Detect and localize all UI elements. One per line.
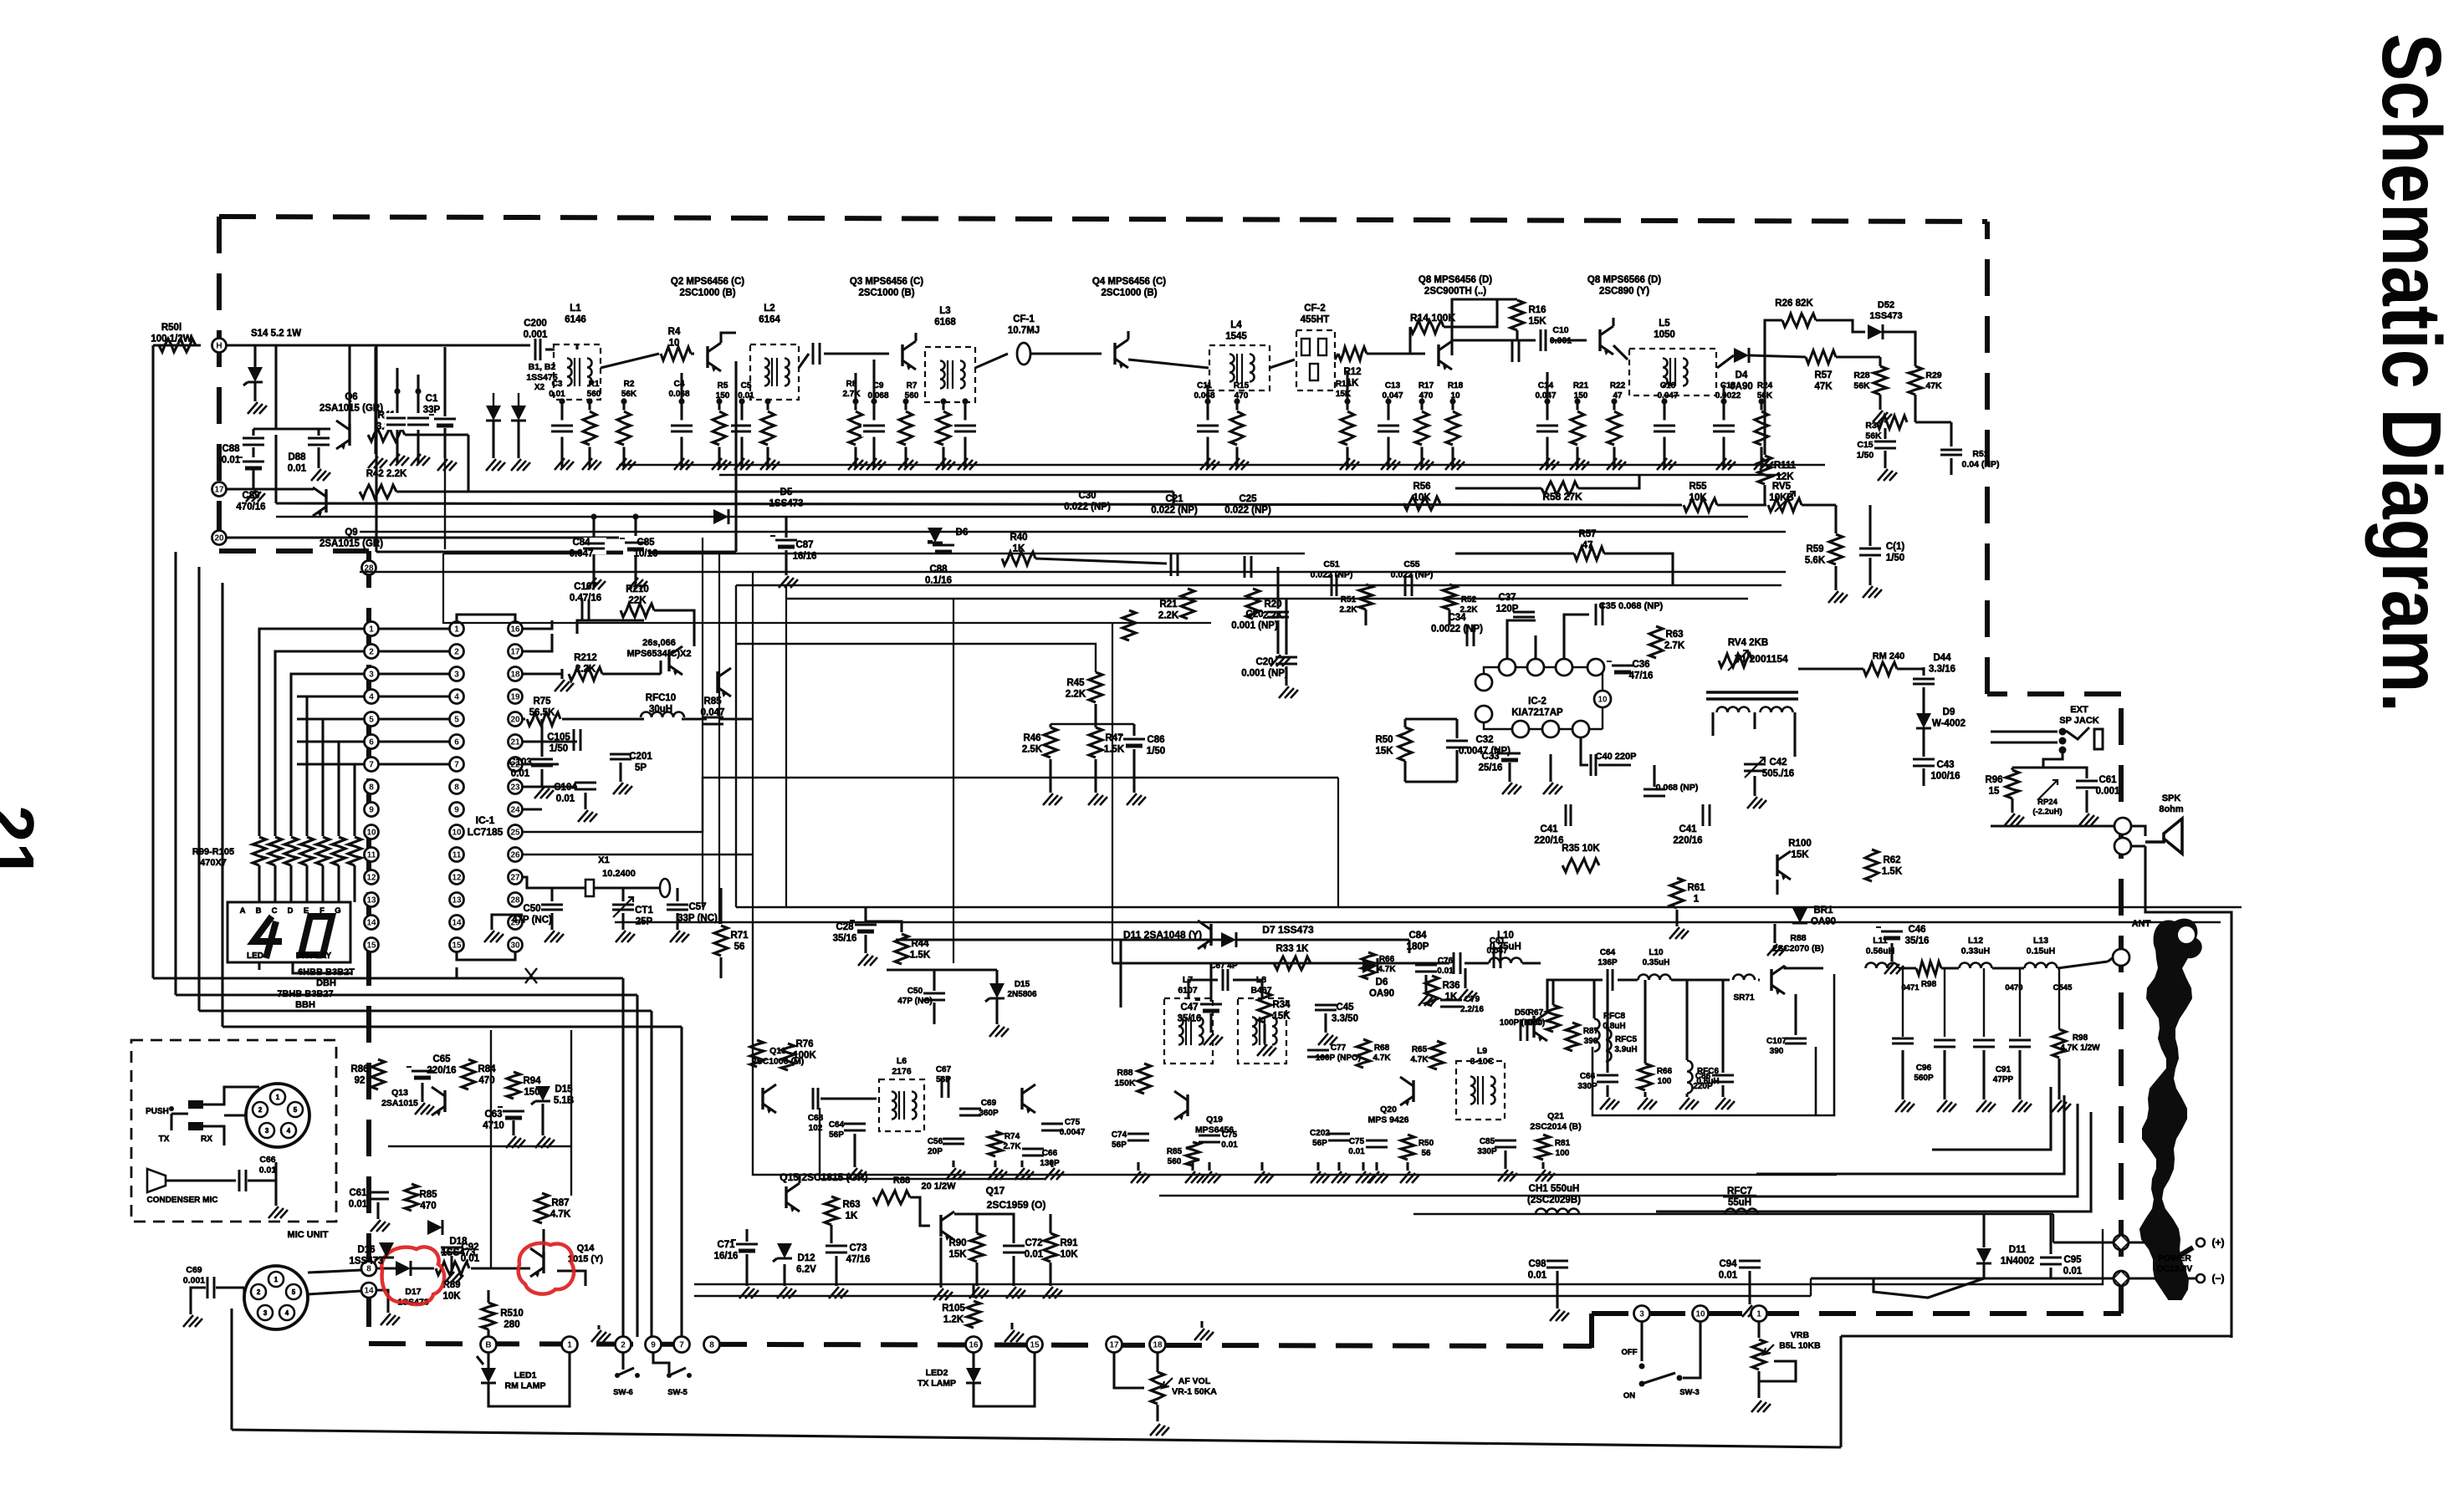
svg-text:1050: 1050 <box>1654 330 1675 340</box>
svg-text:SPK: SPK <box>2162 793 2181 804</box>
svg-text:C94: C94 <box>1719 1259 1737 1269</box>
svg-text:RV5: RV5 <box>1772 482 1792 492</box>
svg-text:R5: R5 <box>718 381 728 390</box>
svg-text:(-2.2uH): (-2.2uH) <box>2032 808 2062 817</box>
svg-text:0.022 (NP): 0.022 (NP) <box>1391 570 1434 580</box>
svg-text:D12: D12 <box>797 1253 815 1263</box>
svg-text:C91: C91 <box>1996 1065 2012 1074</box>
svg-text:0.01: 0.01 <box>1719 1271 1738 1281</box>
svg-text:11: 11 <box>367 851 376 860</box>
svg-text:47P (NC): 47P (NC) <box>512 916 552 926</box>
svg-text:16/16: 16/16 <box>714 1252 739 1262</box>
svg-text:21: 21 <box>0 805 48 880</box>
svg-text:D: D <box>288 906 294 916</box>
svg-text:2SC1959 (O): 2SC1959 (O) <box>987 1199 1046 1211</box>
svg-text:0.01: 0.01 <box>1437 967 1454 976</box>
svg-text:C87: C87 <box>795 540 813 550</box>
svg-text:R51: R51 <box>1341 595 1357 605</box>
svg-text:0.01: 0.01 <box>461 1254 480 1264</box>
svg-text:6168: 6168 <box>934 318 956 328</box>
svg-text:D15: D15 <box>1015 980 1030 989</box>
svg-text:24: 24 <box>510 806 520 815</box>
svg-text:Q17: Q17 <box>986 1185 1005 1196</box>
svg-text:10: 10 <box>1450 391 1460 400</box>
svg-text:1: 1 <box>1694 895 1700 905</box>
svg-text:56P: 56P <box>936 1075 951 1084</box>
svg-text:10K: 10K <box>1689 493 1707 503</box>
svg-text:2: 2 <box>258 1106 263 1114</box>
svg-text:470/16: 470/16 <box>236 503 265 513</box>
svg-text:C64: C64 <box>1600 948 1616 957</box>
svg-text:ANT: ANT <box>2132 919 2151 929</box>
svg-text:8ohm: 8ohm <box>2159 804 2184 814</box>
svg-text:0.047: 0.047 <box>1382 391 1403 400</box>
svg-text:C86: C86 <box>1147 735 1164 745</box>
svg-text:1K: 1K <box>846 1212 858 1222</box>
svg-text:47K: 47K <box>1925 381 1942 391</box>
svg-text:PUSH: PUSH <box>146 1107 169 1116</box>
svg-text:R40: R40 <box>1010 533 1027 543</box>
svg-text:1.5K: 1.5K <box>1104 745 1125 755</box>
svg-text:Q19: Q19 <box>1206 1115 1223 1125</box>
svg-text:R50: R50 <box>1375 735 1393 745</box>
svg-text:0.001 (NP): 0.001 (NP) <box>1231 621 1278 631</box>
svg-text:R57: R57 <box>1814 370 1832 380</box>
svg-text:C65: C65 <box>432 1054 451 1064</box>
svg-text:TX: TX <box>159 1135 170 1144</box>
svg-text:0.068 (NP): 0.068 (NP) <box>1656 783 1699 793</box>
svg-text:0.15uH: 0.15uH <box>2027 946 2055 957</box>
svg-text:Q20: Q20 <box>1380 1105 1397 1115</box>
svg-text:C20: C20 <box>1255 657 1273 667</box>
svg-text:130P: 130P <box>1040 1159 1060 1168</box>
svg-text:R75: R75 <box>533 696 551 707</box>
svg-text:25: 25 <box>510 829 520 838</box>
svg-text:EXT: EXT <box>2070 705 2088 715</box>
svg-text:100K: 100K <box>793 1051 816 1061</box>
svg-text:0.8uH: 0.8uH <box>1603 1022 1625 1031</box>
svg-text:R87: R87 <box>551 1198 569 1208</box>
svg-text:5: 5 <box>294 1106 298 1114</box>
svg-text:10: 10 <box>366 829 376 838</box>
svg-text:C77: C77 <box>1331 1043 1347 1053</box>
svg-text:R96: R96 <box>1985 775 2002 785</box>
svg-text:56.5K: 56.5K <box>529 708 555 718</box>
svg-text:0.04 (NP): 0.04 (NP) <box>1962 460 2000 470</box>
svg-text:2: 2 <box>454 648 459 657</box>
svg-text:2SC2014 (B): 2SC2014 (B) <box>1530 1122 1581 1132</box>
svg-text:56P: 56P <box>1112 1140 1127 1150</box>
svg-text:SP JACK: SP JACK <box>2059 716 2099 726</box>
svg-text:3: 3 <box>454 671 459 680</box>
svg-text:C34: C34 <box>1448 613 1466 623</box>
svg-text:56K: 56K <box>1853 381 1870 391</box>
svg-text:R212: R212 <box>574 653 597 663</box>
svg-text:1.5K: 1.5K <box>910 951 931 961</box>
svg-text:C3: C3 <box>552 380 563 389</box>
svg-text:0.047: 0.047 <box>570 549 594 559</box>
svg-text:4.7K: 4.7K <box>1373 1053 1391 1063</box>
svg-text:R15: R15 <box>1234 381 1250 390</box>
svg-text:C73: C73 <box>849 1243 866 1253</box>
svg-text:0.01: 0.01 <box>511 769 530 779</box>
svg-text:2176: 2176 <box>892 1067 912 1077</box>
svg-text:0.047: 0.047 <box>1535 391 1556 400</box>
svg-text:R88: R88 <box>1117 1068 1132 1078</box>
svg-text:C69: C69 <box>186 1265 202 1275</box>
svg-text:CF-1: CF-1 <box>1013 314 1035 324</box>
svg-text:28: 28 <box>510 896 520 906</box>
svg-text:120P: 120P <box>1496 605 1519 615</box>
svg-text:3: 3 <box>263 1309 268 1317</box>
svg-text:R74: R74 <box>1005 1132 1020 1141</box>
svg-text:2SA1015: 2SA1015 <box>381 1099 418 1109</box>
svg-text:D11: D11 <box>2009 1245 2027 1255</box>
svg-text:10: 10 <box>452 829 462 838</box>
svg-text:RV4 2KB: RV4 2KB <box>1728 638 1768 648</box>
svg-text:D52: D52 <box>1878 300 1894 310</box>
svg-text:0.56uH: 0.56uH <box>1866 946 1894 957</box>
svg-text:15: 15 <box>1030 1341 1040 1350</box>
svg-text:1: 1 <box>274 1276 279 1283</box>
svg-text:6146: 6146 <box>565 315 586 325</box>
svg-text:C57: C57 <box>688 902 706 912</box>
svg-text:C33: C33 <box>1481 752 1499 762</box>
svg-text:C13: C13 <box>1385 381 1401 390</box>
svg-text:R210: R210 <box>626 584 649 594</box>
svg-text:C84: C84 <box>1408 931 1427 941</box>
svg-text:7: 7 <box>454 761 459 770</box>
svg-text:Q21: Q21 <box>1547 1111 1564 1121</box>
svg-text:12K: 12K <box>1776 472 1794 482</box>
svg-text:C25: C25 <box>1239 494 1257 504</box>
svg-text:27: 27 <box>510 874 520 883</box>
svg-text:455HT: 455HT <box>1301 315 1330 325</box>
svg-text:23: 23 <box>510 783 520 793</box>
svg-text:56P: 56P <box>829 1130 844 1140</box>
svg-text:C103: C103 <box>509 758 532 768</box>
svg-text:0.047: 0.047 <box>1657 391 1678 400</box>
svg-text:21: 21 <box>510 738 520 747</box>
svg-text:13: 13 <box>452 896 462 906</box>
svg-text:Q8 MPS6566 (D): Q8 MPS6566 (D) <box>1587 275 1661 285</box>
svg-text:470: 470 <box>478 1076 494 1086</box>
svg-text:47P (NC): 47P (NC) <box>897 997 933 1006</box>
svg-text:136P: 136P <box>1598 958 1618 967</box>
svg-text:R90: R90 <box>948 1238 966 1248</box>
svg-text:C75: C75 <box>1349 1137 1365 1146</box>
svg-text:0.35uH: 0.35uH <box>1643 958 1670 967</box>
svg-text:R68: R68 <box>1374 1043 1390 1053</box>
svg-text:Q4 MPS6456 (C): Q4 MPS6456 (C) <box>1092 277 1166 287</box>
svg-text:3: 3 <box>369 671 374 680</box>
svg-text:15K: 15K <box>948 1250 967 1260</box>
svg-text:C88: C88 <box>222 444 240 454</box>
svg-text:C71: C71 <box>717 1240 735 1250</box>
svg-text:C43: C43 <box>1936 760 1954 770</box>
svg-text:R62: R62 <box>1883 855 1900 865</box>
svg-text:0.01: 0.01 <box>1221 1140 1238 1150</box>
svg-text:C202: C202 <box>1310 1129 1330 1138</box>
svg-text:L1: L1 <box>570 304 581 314</box>
svg-text:2SC890 (Y): 2SC890 (Y) <box>1599 287 1649 297</box>
svg-text:D7 1SS473: D7 1SS473 <box>1262 924 1314 936</box>
svg-text:C5: C5 <box>741 381 752 390</box>
svg-text:R98: R98 <box>1921 980 1937 989</box>
svg-text:0.001: 0.001 <box>2096 787 2120 797</box>
svg-text:0.001: 0.001 <box>524 330 548 340</box>
svg-text:26s,066: 26s,066 <box>642 638 676 648</box>
svg-text:C89: C89 <box>242 491 259 501</box>
svg-text:R71: R71 <box>730 931 749 941</box>
svg-text:10: 10 <box>1598 696 1608 705</box>
svg-text:C50: C50 <box>907 987 923 996</box>
svg-text:R2: R2 <box>624 380 635 389</box>
svg-text:MIC UNIT: MIC UNIT <box>288 1230 329 1240</box>
svg-text:C: C <box>272 906 278 916</box>
svg-text:20: 20 <box>510 716 520 725</box>
svg-text:C69: C69 <box>981 1099 997 1108</box>
svg-text:1/50: 1/50 <box>550 744 568 754</box>
svg-text:2.7K: 2.7K <box>1003 1142 1021 1151</box>
svg-text:R52: R52 <box>1461 595 1477 605</box>
svg-text:4.7K 1/2W: 4.7K 1/2W <box>2060 1043 2100 1053</box>
svg-text:20P: 20P <box>928 1147 943 1156</box>
svg-text:C545: C545 <box>2053 983 2073 992</box>
svg-text:W-4002: W-4002 <box>1932 719 1966 729</box>
svg-text:C50: C50 <box>523 904 540 914</box>
svg-text:102: 102 <box>809 1124 823 1133</box>
svg-text:55uH: 55uH <box>1728 1198 1751 1208</box>
svg-text:2SC900TH (..): 2SC900TH (..) <box>1424 287 1486 297</box>
svg-text:(−): (−) <box>2212 1273 2225 1284</box>
svg-text:R61: R61 <box>1687 883 1705 893</box>
svg-text:LED: LED <box>247 951 263 961</box>
svg-text:CF-2: CF-2 <box>1304 304 1326 314</box>
svg-text:C41: C41 <box>1540 824 1558 834</box>
svg-text:100/16: 100/16 <box>1930 772 1960 782</box>
svg-text:8: 8 <box>454 783 459 793</box>
svg-text:C47: C47 <box>1180 1002 1198 1013</box>
svg-text:D5: D5 <box>780 487 793 497</box>
svg-text:DISPLAY: DISPLAY <box>296 951 332 961</box>
svg-text:16: 16 <box>969 1341 979 1350</box>
svg-text:7BHB B3B27: 7BHB B3B27 <box>277 989 333 999</box>
svg-text:2: 2 <box>621 1341 626 1350</box>
svg-text:MPS6534(C)X2: MPS6534(C)X2 <box>626 649 691 659</box>
svg-text:0.0022 (NP): 0.0022 (NP) <box>1431 625 1483 635</box>
svg-text:C10: C10 <box>1552 325 1568 335</box>
svg-text:0.01: 0.01 <box>259 1166 277 1176</box>
svg-text:2.2K: 2.2K <box>1339 605 1357 615</box>
svg-text:C85: C85 <box>636 538 655 548</box>
svg-text:0.1/16: 0.1/16 <box>925 576 952 586</box>
svg-text:R22: R22 <box>1610 381 1626 390</box>
svg-text:C32: C32 <box>1475 735 1493 745</box>
svg-text:7: 7 <box>679 1341 684 1350</box>
svg-text:0.01: 0.01 <box>1528 1271 1547 1281</box>
svg-text:1: 1 <box>454 625 459 635</box>
svg-text:15: 15 <box>452 941 462 951</box>
svg-text:C67: C67 <box>936 1065 952 1074</box>
svg-text:C107: C107 <box>1766 1037 1787 1046</box>
svg-text:4: 4 <box>369 693 374 702</box>
svg-text:150K: 150K <box>1114 1079 1136 1089</box>
svg-text:C68: C68 <box>808 1114 824 1123</box>
svg-text:20 1/2W: 20 1/2W <box>922 1181 957 1191</box>
svg-text:C107: C107 <box>574 582 597 592</box>
svg-text:0.068: 0.068 <box>1194 391 1214 400</box>
svg-text:R4: R4 <box>668 327 681 337</box>
svg-text:560: 560 <box>1168 1157 1182 1166</box>
svg-text:VR-1 50KA: VR-1 50KA <box>1172 1387 1217 1397</box>
svg-text:4710: 4710 <box>483 1121 504 1131</box>
svg-text:R28: R28 <box>1853 370 1869 380</box>
svg-text:R17: R17 <box>1419 381 1434 390</box>
svg-text:0.35uH: 0.35uH <box>1490 942 1521 952</box>
svg-text:R45: R45 <box>1066 678 1085 688</box>
svg-text:C88: C88 <box>929 564 948 574</box>
svg-text:C85: C85 <box>1480 1137 1495 1146</box>
svg-text:C61: C61 <box>2098 775 2117 785</box>
svg-text:C(1): C(1) <box>1886 542 1905 552</box>
svg-text:0.068: 0.068 <box>867 391 888 400</box>
svg-text:330P: 330P <box>1577 1082 1598 1091</box>
svg-text:1: 1 <box>276 1094 280 1101</box>
svg-text:2N5806: 2N5806 <box>1007 990 1036 999</box>
svg-text:0.01: 0.01 <box>288 464 307 474</box>
svg-text:0.01: 0.01 <box>556 794 575 804</box>
svg-text:16: 16 <box>510 625 520 635</box>
svg-text:R99-R105: R99-R105 <box>192 847 234 857</box>
svg-text:9: 9 <box>454 806 459 815</box>
svg-text:47K: 47K <box>1814 382 1833 392</box>
svg-text:Q3 MPS6456 (C): Q3 MPS6456 (C) <box>850 277 923 287</box>
svg-text:19: 19 <box>510 693 520 702</box>
svg-text:47/16: 47/16 <box>846 1255 871 1265</box>
svg-text:R7: R7 <box>907 381 918 390</box>
svg-text:9: 9 <box>651 1341 656 1350</box>
svg-text:L2: L2 <box>764 304 774 314</box>
svg-text:D9: D9 <box>1943 707 1955 717</box>
svg-text:0.01: 0.01 <box>1025 1250 1044 1260</box>
svg-text:LC7185: LC7185 <box>468 826 504 838</box>
svg-text:9: 9 <box>369 806 374 815</box>
svg-text:3.9uH: 3.9uH <box>1614 1045 1637 1054</box>
svg-text:10K: 10K <box>442 1292 461 1302</box>
svg-text:25/16: 25/16 <box>1479 763 1503 773</box>
svg-text:0471: 0471 <box>1901 983 1920 992</box>
svg-text:15K: 15K <box>1528 317 1546 327</box>
svg-text:8: 8 <box>369 783 374 793</box>
svg-text:220/16: 220/16 <box>1534 836 1563 846</box>
svg-text:ON: ON <box>1623 1391 1635 1400</box>
svg-text:4: 4 <box>287 1127 291 1135</box>
svg-text:2SA1015 (GR): 2SA1015 (GR) <box>320 404 383 414</box>
svg-text:R21: R21 <box>1573 381 1589 390</box>
svg-text:5: 5 <box>369 716 374 725</box>
svg-text:R111: R111 <box>1774 461 1797 471</box>
svg-text:Q13: Q13 <box>391 1088 408 1098</box>
svg-text:C92: C92 <box>461 1242 478 1252</box>
svg-text:22K: 22K <box>628 596 647 606</box>
svg-text:2.2/16: 2.2/16 <box>1460 1005 1484 1014</box>
svg-text:KIA7217AP: KIA7217AP <box>1511 708 1563 718</box>
svg-text:1SS473: 1SS473 <box>769 499 804 509</box>
svg-text:L6: L6 <box>897 1056 907 1066</box>
svg-text:2.2K: 2.2K <box>1158 611 1179 621</box>
svg-text:0.022 (NP): 0.022 (NP) <box>1224 506 1271 516</box>
svg-text:2SA1015 (GR): 2SA1015 (GR) <box>320 539 383 549</box>
svg-text:IC-2: IC-2 <box>1528 696 1546 707</box>
svg-text:330P: 330P <box>1477 1147 1497 1156</box>
svg-text:12: 12 <box>366 874 376 883</box>
svg-text:0.022 (NP): 0.022 (NP) <box>1151 506 1198 516</box>
svg-text:X1: X1 <box>598 855 609 865</box>
svg-text:RFC7: RFC7 <box>1727 1186 1752 1196</box>
svg-text:RX: RX <box>201 1135 212 1144</box>
svg-text:56K: 56K <box>621 390 637 399</box>
svg-text:R50l: R50l <box>161 323 181 333</box>
svg-text:Q2 MPS6456 (C): Q2 MPS6456 (C) <box>671 277 744 287</box>
svg-text:A: A <box>240 906 246 916</box>
svg-text:11: 11 <box>452 851 462 860</box>
svg-text:100P (NPO): 100P (NPO) <box>1316 1053 1361 1063</box>
svg-text:RFC10: RFC10 <box>646 693 676 703</box>
svg-text:1SS473: 1SS473 <box>1869 311 1902 321</box>
svg-text:R59: R59 <box>1806 544 1823 554</box>
svg-text:D44: D44 <box>1933 653 1951 663</box>
svg-text:1545: 1545 <box>1225 332 1247 342</box>
svg-text:L9: L9 <box>1477 1046 1487 1056</box>
svg-text:SW-5: SW-5 <box>667 1388 688 1397</box>
svg-text:X2: X2 <box>534 383 545 392</box>
svg-text:OA90: OA90 <box>1369 989 1394 999</box>
svg-text:13: 13 <box>366 896 376 906</box>
svg-text:2.7K: 2.7K <box>842 390 861 399</box>
svg-text:0.022 (NP): 0.022 (NP) <box>1064 503 1111 513</box>
svg-text:2SC1000 (B): 2SC1000 (B) <box>858 288 914 298</box>
svg-text:5: 5 <box>292 1288 296 1296</box>
svg-text:4: 4 <box>454 693 459 702</box>
svg-text:R21: R21 <box>1159 599 1178 610</box>
svg-text:SW-3: SW-3 <box>1679 1388 1700 1397</box>
svg-text:L5: L5 <box>1659 319 1670 329</box>
svg-text:B: B <box>485 1341 491 1350</box>
svg-text:56: 56 <box>1421 1149 1431 1158</box>
svg-text:15K: 15K <box>1791 850 1809 860</box>
svg-text:D17: D17 <box>405 1287 421 1297</box>
svg-text:L10: L10 <box>1497 931 1514 941</box>
svg-text:C75: C75 <box>1065 1118 1081 1127</box>
svg-text:R36: R36 <box>1442 981 1459 991</box>
svg-text:0.01: 0.01 <box>549 390 565 399</box>
svg-text:DC13.8V: DC13.8V <box>2157 1264 2193 1274</box>
svg-text:R66: R66 <box>1657 1067 1673 1076</box>
svg-text:B5L 10KB: B5L 10KB <box>1779 1341 1821 1351</box>
svg-text:R26 82K: R26 82K <box>1775 298 1813 309</box>
svg-text:0.01: 0.01 <box>738 391 754 400</box>
svg-text:18: 18 <box>1153 1341 1163 1350</box>
svg-text:C41: C41 <box>1679 824 1697 834</box>
svg-text:8: 8 <box>709 1341 714 1350</box>
svg-text:C51: C51 <box>1323 559 1339 569</box>
svg-text:3: 3 <box>265 1127 269 1135</box>
svg-text:(+): (+) <box>2212 1237 2225 1248</box>
svg-text:1N4002: 1N4002 <box>2001 1257 2034 1267</box>
svg-text:470: 470 <box>1235 391 1249 400</box>
svg-text:C45: C45 <box>1336 1002 1354 1013</box>
